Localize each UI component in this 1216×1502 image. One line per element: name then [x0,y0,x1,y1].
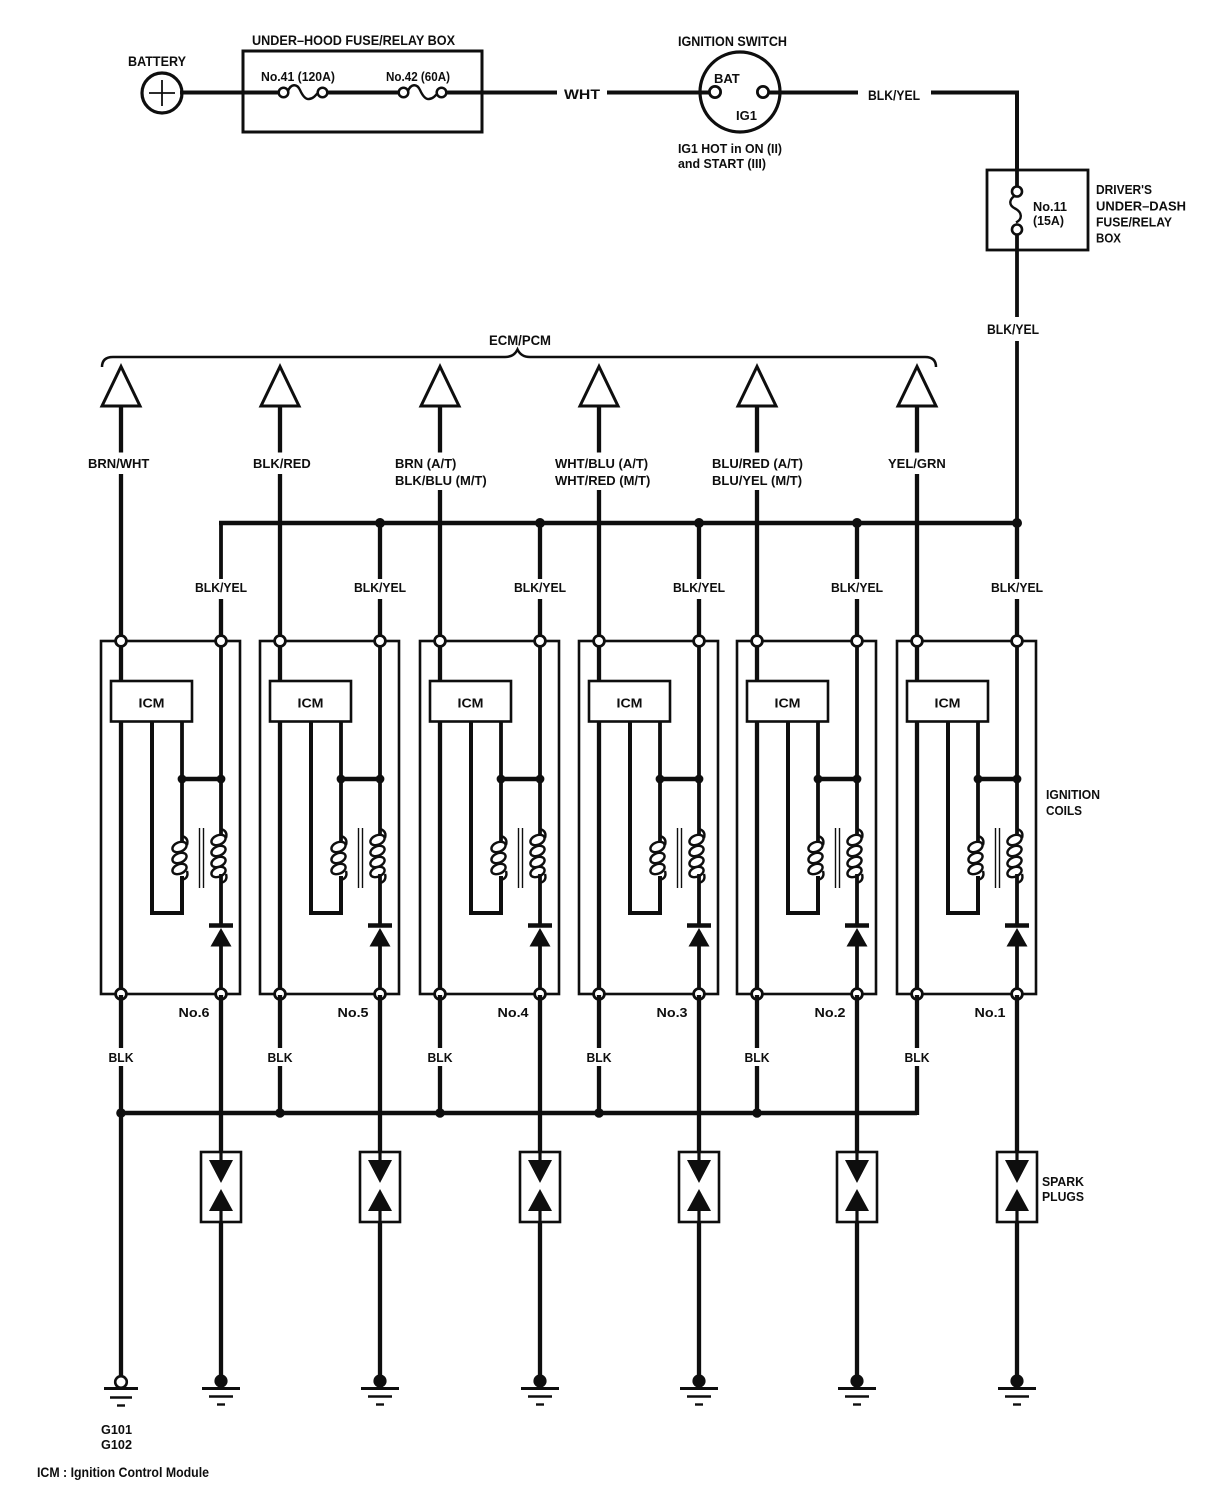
under-hood fuse/relay box [243,33,482,132]
primary winding coil No.4 [490,836,507,880]
terminal coil No.4 bottom right [535,989,546,1000]
ECM/PCM connector terminal 3 [421,367,459,407]
label ignition coils [1046,787,1100,818]
label G101 G102 [101,1423,132,1452]
diode coil No.1 [1005,926,1029,947]
wire bus down to coil No.4 [538,523,542,579]
ignition coil No.1 [897,636,1036,1020]
wire ICM pin 3 to primary winding top [816,721,820,843]
svg-text:BLK/YEL: BLK/YEL [514,580,566,595]
terminal coil No.2 top left [752,636,763,647]
svg-text:BLK/YEL: BLK/YEL [673,580,725,595]
note IG1 HOT in ON and START [678,142,782,171]
fuse No.41 [279,85,328,99]
svg-text:BLK: BLK [268,1051,293,1065]
svg-text:and START (III): and START (III) [678,157,766,171]
transformer core coil No.2 [836,828,840,888]
ECM/PCM connector terminal 6 [898,367,936,407]
wire to ignition coil No.2 terminal [755,490,759,643]
wire secondary winding to diode [855,874,859,924]
svg-text:BLK: BLK [428,1051,453,1065]
svg-text:ICM: ICM [617,697,643,711]
secondary winding coil No.4 [529,829,546,883]
wire BLK from coil No.2 [755,995,759,1048]
svg-text:IGNITION SWITCH: IGNITION SWITCH [678,34,787,49]
wire ICM pin 2 to primary winding bottom [471,721,501,913]
wire coil No.3 output to spark plug [697,995,701,1153]
svg-text:DRIVER'S: DRIVER'S [1096,183,1152,197]
wire diode to spark output terminal [1015,945,1019,995]
spark plug No.1 [997,1152,1037,1222]
svg-text:No.1: No.1 [975,1005,1006,1020]
coil No.5 outer box [260,641,399,994]
svg-text:BLK/RED: BLK/RED [253,456,311,471]
ECM/PCM connector terminal 4 [580,367,618,407]
junction at primary [656,775,665,784]
wire ICM pin 3 to primary winding top [499,721,503,843]
terminal coil No.1 top right [1012,636,1023,647]
wire BLK to ground bus [438,1066,442,1115]
svg-text:WHT: WHT [564,87,601,102]
wire from ECM/PCM terminal 6 [915,406,919,453]
wire bus left corner down to coil No.6 [219,523,223,579]
net label BLK/RED [253,456,311,471]
ICM U6 [111,681,192,722]
wire terminal to ICM U2 [755,641,759,682]
wire terminal to ICM U5 [278,641,282,682]
spark plug No.6 [201,1152,241,1222]
spark plug No.3 [679,1152,719,1222]
net label WHT/BLU (A/T) / WHT/RED (M/T) [555,456,650,488]
wire spark plug No.1 to ground [1015,1222,1019,1378]
wire BLK to ground bus [278,1066,282,1115]
wire junction bar primary-secondary [978,777,1017,781]
label spark plugs [1042,1175,1084,1204]
ignition coil No.4 [420,636,559,1020]
ground for spark plug No.6 [202,1374,240,1404]
wire coil No.4 output to spark plug [538,995,542,1153]
junction at secondary [1013,775,1022,784]
wire ICM pin 3 to primary winding top [976,721,980,843]
secondary winding coil No.6 [210,829,227,883]
wire to ignition coil No.4 terminal [438,490,442,643]
fuse No.11 (15A) [1010,170,1022,250]
spark plug No.4 [520,1152,560,1222]
wire BLK/YEL into coil No.6 [219,599,223,643]
terminal coil No.3 top left [594,636,605,647]
svg-text:No.2: No.2 [815,1005,846,1020]
svg-text:WHT/BLU (A/T): WHT/BLU (A/T) [555,456,648,471]
terminal coil No.6 bottom right [216,989,227,1000]
net label BRN/WHT [88,456,149,471]
wire secondary winding to diode [378,874,382,924]
svg-text:WHT/RED (M/T): WHT/RED (M/T) [555,473,650,488]
wire secondary winding to diode [219,874,223,924]
primary winding coil No.3 [649,836,666,880]
wire into fuse No.41 [243,91,279,95]
wire bus down to coil No.3 [697,523,701,579]
junction at primary [178,775,187,784]
wire to ignition coil No.1 terminal [915,474,919,643]
wire diode to spark output terminal [219,945,223,995]
wire ICM pin 3 to primary winding top [180,721,184,843]
wire secondary terminal through junction to winding [855,641,859,836]
terminal coil No.6 bottom left [116,989,127,1000]
wire coil No.5 output to spark plug [378,995,382,1153]
terminal coil No.2 bottom right [852,989,863,1000]
ignition coil No.2 [737,636,876,1020]
wire spark plug No.4 to ground [538,1222,542,1378]
wire BLK/YEL into coil No.4 [538,599,542,643]
svg-text:IG1 HOT in ON (II): IG1 HOT in ON (II) [678,142,782,156]
wire bus down to coil No.5 [378,523,382,579]
ground for spark plug No.4 [521,1374,559,1404]
wire BLK to ground bus [915,1066,919,1115]
wire bus down to coil No.1 [1015,523,1019,579]
svg-text:BLK: BLK [905,1051,930,1065]
transformer core coil No.1 [996,828,1000,888]
transformer core coil No.5 [359,828,363,888]
svg-text:ICM: ICM [935,697,961,711]
wire ICM pin 1 to coil No.4 ground terminal [438,721,442,995]
wire secondary terminal through junction to winding [219,641,223,836]
wire diode to spark output terminal [697,945,701,995]
wire junction bar primary-secondary [341,777,380,781]
svg-text:BOX: BOX [1096,232,1122,246]
coil No.6 outer box [101,641,240,994]
wire diode to spark output terminal [538,945,542,995]
ICM U1 [907,681,988,722]
wire ICM pin 1 to coil No.3 ground terminal [597,721,601,995]
junction ground bus at No.4 [435,1108,445,1118]
wire spark plug No.2 to ground [855,1222,859,1378]
junction at primary [814,775,823,784]
wire junction bar primary-secondary [182,777,221,781]
transformer core coil No.3 [678,828,682,888]
terminal coil No.2 top right [852,636,863,647]
wire to ignition coil No.5 terminal [278,474,282,643]
junction at secondary [217,775,226,784]
svg-text:ICM: ICM [298,697,324,711]
wire ICM pin 3 to primary winding top [658,721,662,843]
wire BLK from coil No.3 [597,995,601,1048]
wire ICM pin 2 to primary winding bottom [311,721,341,913]
svg-text:BLK/YEL: BLK/YEL [195,580,247,595]
wire terminal to ICM U6 [119,641,123,682]
secondary winding coil No.2 [846,829,863,883]
primary winding coil No.6 [171,836,188,880]
wire secondary winding to diode [1015,874,1019,924]
svg-text:BLU/YEL (M/T): BLU/YEL (M/T) [712,473,802,488]
svg-text:SPARK: SPARK [1042,1175,1084,1189]
wire from ECM/PCM terminal 3 [438,406,442,453]
wire between fuses [327,91,399,95]
junction bus to coil No.2 [852,518,862,528]
wire BLK from coil No.4 [438,995,442,1048]
svg-text:BRN/WHT: BRN/WHT [88,456,149,471]
terminal coil No.4 top left [435,636,446,647]
svg-text:BLK/YEL: BLK/YEL [831,580,883,595]
wire diode to spark output terminal [855,945,859,995]
terminal coil No.2 bottom left [752,989,763,1000]
wire secondary terminal through junction to winding [538,641,542,836]
svg-text:BLK: BLK [587,1051,612,1065]
transformer core coil No.6 [200,828,204,888]
ignition coil No.6 [101,636,240,1020]
wire spark plug No.6 to ground [219,1222,223,1378]
wire BLK/YEL down to bus [1015,341,1019,523]
svg-text:BLK/YEL: BLK/YEL [991,580,1043,595]
wire bus down to coil No.2 [855,523,859,579]
wire secondary terminal through junction to winding [378,641,382,836]
svg-text:G101: G101 [101,1423,132,1437]
ECM/PCM connector terminal 5 [738,367,776,407]
terminal coil No.5 bottom right [375,989,386,1000]
svg-text:(15A): (15A) [1033,214,1064,228]
svg-text:ICM : Ignition Control Module: ICM : Ignition Control Module [37,1465,209,1480]
svg-text:ICM: ICM [458,697,484,711]
wire ground bus [121,1111,917,1116]
junction ground bus at No.3 [594,1108,604,1118]
coil No.2 outer box [737,641,876,994]
svg-text:No.11: No.11 [1033,200,1067,214]
terminal coil No.5 top left [275,636,286,647]
svg-text:BLK: BLK [109,1051,134,1065]
diode coil No.5 [368,926,392,947]
wire battery to under-hood fuse box [180,91,244,95]
terminal coil No.5 top right [375,636,386,647]
spark plug No.5 [360,1152,400,1222]
wire to ignition coil No.3 terminal [597,490,601,643]
svg-text:COILS: COILS [1046,803,1082,818]
ICM U5 [270,681,351,722]
wire secondary terminal through junction to winding [697,641,701,836]
terminal coil No.4 bottom left [435,989,446,1000]
wire ICM pin 2 to primary winding bottom [788,721,818,913]
wire coil No.6 output to spark plug [219,995,223,1153]
wire BLK/YEL distribution bus [219,521,1017,526]
junction at primary [497,775,506,784]
terminal coil No.1 bottom left [912,989,923,1000]
ground for spark plug No.5 [361,1374,399,1404]
svg-text:YEL/GRN: YEL/GRN [888,456,946,471]
coil No.4 outer box [420,641,559,994]
coil No.1 outer box [897,641,1036,994]
junction bus to coil No.4 [535,518,545,528]
ignition switch [678,34,787,132]
ignition coil No.3 [579,636,718,1020]
primary winding coil No.1 [967,836,984,880]
ground for spark plug No.2 [838,1374,876,1404]
svg-text:PLUGS: PLUGS [1042,1190,1084,1204]
wire ICM pin 2 to primary winding bottom [152,721,182,913]
spark plug No.2 [837,1152,877,1222]
net label BLU/RED (A/T) / BLU/YEL (M/T) [712,456,803,488]
net label BRN (A/T) / BLK/BLU (M/T) [395,456,487,488]
wire spark plug No.5 to ground [378,1222,382,1378]
wire under-dash box down, BLK/YEL net [1015,250,1019,317]
ICM U3 [589,681,670,722]
svg-text:G102: G102 [101,1438,132,1452]
svg-text:ICM: ICM [139,697,165,711]
wire BLK/YEL into coil No.1 (from fuse) [1015,599,1019,643]
wire ignition switch to BLK/YEL label [769,91,858,95]
wire junction bar primary-secondary [660,777,699,781]
svg-text:UNDER–DASH: UNDER–DASH [1096,200,1186,214]
junction at secondary [695,775,704,784]
terminal coil No.6 top left [116,636,127,647]
junction at primary [974,775,983,784]
fuse No.42 [399,85,447,99]
wire from ECM/PCM terminal 2 [278,406,282,453]
svg-text:No.41 (120A): No.41 (120A) [261,70,335,84]
secondary winding coil No.5 [369,829,386,883]
wire BLK from coil No.5 [278,995,282,1048]
wire BLK/YEL to under-dash fuse box [931,93,1017,171]
junction at secondary [536,775,545,784]
ECM/PCM brace [102,350,936,368]
junction ground bus at No.5 [275,1108,285,1118]
ground for spark plug No.1 [998,1374,1036,1404]
wire ICM pin 1 to coil No.6 ground terminal [119,721,123,995]
transformer core coil No.4 [519,828,523,888]
wire from ECM/PCM terminal 4 [597,406,601,453]
svg-text:BATTERY: BATTERY [128,54,186,69]
wire ICM pin 1 to coil No.2 ground terminal [755,721,759,995]
svg-text:ECM/PCM: ECM/PCM [489,333,551,348]
wire secondary terminal through junction to winding [1015,641,1019,836]
terminal coil No.6 top right [216,636,227,647]
diode coil No.3 [687,926,711,947]
svg-text:No.5: No.5 [338,1005,369,1020]
wire BLK/YEL into coil No.2 [855,599,859,643]
net label YEL/GRN [888,456,946,471]
wire secondary winding to diode [697,874,701,924]
junction bus to coil No.3 [694,518,704,528]
svg-text:UNDER–HOOD FUSE/RELAY BOX: UNDER–HOOD FUSE/RELAY BOX [252,33,455,48]
diode coil No.2 [845,926,869,947]
battery [128,54,186,113]
fuse No.11 value label [1033,200,1067,228]
svg-text:IG1: IG1 [736,108,757,123]
svg-text:BLU/RED (A/T): BLU/RED (A/T) [712,456,803,471]
ICM U2 [747,681,828,722]
primary winding coil No.5 [330,836,347,880]
junction bus to coil No.1 [1012,518,1022,528]
terminal coil No.1 bottom right [1012,989,1023,1000]
diode coil No.6 [209,926,233,947]
wire WHT to ignition switch [607,91,711,95]
wire BLK/YEL into coil No.3 [697,599,701,643]
junction at secondary [853,775,862,784]
wire G101 ground drop [119,1113,123,1376]
wire ICM pin 1 to coil No.5 ground terminal [278,721,282,995]
wire junction bar primary-secondary [818,777,857,781]
svg-text:BAT: BAT [714,71,740,86]
svg-text:BLK/YEL: BLK/YEL [987,322,1039,337]
wire BLK from coil No.1 [915,995,919,1048]
ignition coil No.5 [260,636,399,1020]
terminal coil No.3 bottom left [594,989,605,1000]
ICM U4 [430,681,511,722]
svg-text:ICM: ICM [775,697,801,711]
wire ICM pin 2 to primary winding bottom [630,721,660,913]
primary winding coil No.2 [807,836,824,880]
junction at primary [337,775,346,784]
junction bus to coil No.5 [375,518,385,528]
wire ICM pin 1 to coil No.1 ground terminal [915,721,919,995]
svg-text:BRN (A/T): BRN (A/T) [395,456,456,471]
terminal coil No.3 top right [694,636,705,647]
ground for spark plug No.3 [680,1374,718,1404]
junction ground bus at No.6 [116,1108,126,1118]
ground G101/G102 [104,1376,138,1405]
svg-text:No.42 (60A): No.42 (60A) [386,70,450,84]
ECM/PCM connector terminal 2 [261,367,299,407]
wire ICM pin 2 to primary winding bottom [948,721,978,913]
wire BLK from coil No.6 [119,995,123,1048]
wire terminal to ICM U3 [597,641,601,682]
secondary winding coil No.1 [1006,829,1023,883]
driver's under-dash fuse/relay box [987,170,1088,250]
diode coil No.4 [528,926,552,947]
terminal coil No.4 top right [535,636,546,647]
wire BLK/YEL into coil No.5 [378,599,382,643]
svg-text:No.6: No.6 [179,1005,210,1020]
svg-text:No.3: No.3 [657,1005,688,1020]
wire coil No.1 output to spark plug [1015,995,1019,1153]
coil No.3 outer box [579,641,718,994]
wire to ignition coil No.6 terminal [119,474,123,643]
ECM/PCM connector terminal 1 [102,367,140,407]
wire fuse box to WHT label [446,91,557,95]
svg-text:BLK: BLK [745,1051,770,1065]
label driver's under-dash fuse/relay box [1096,183,1186,246]
wire BLK to ground bus [597,1066,601,1115]
secondary winding coil No.3 [688,829,705,883]
wire coil No.2 output to spark plug [855,995,859,1153]
wire terminal to ICM U1 [915,641,919,682]
wire from ECM/PCM terminal 5 [755,406,759,453]
wire spark plug No.3 to ground [697,1222,701,1378]
wire diode to spark output terminal [378,945,382,995]
terminal coil No.3 bottom right [694,989,705,1000]
wire from ECM/PCM terminal 1 [119,406,123,453]
svg-text:IGNITION: IGNITION [1046,787,1100,802]
wire ICM pin 3 to primary winding top [339,721,343,843]
svg-text:No.4: No.4 [498,1005,530,1020]
svg-text:BLK/BLU (M/T): BLK/BLU (M/T) [395,473,487,488]
wire terminal to ICM U4 [438,641,442,682]
wire secondary winding to diode [538,874,542,924]
junction at secondary [376,775,385,784]
wire BLK to ground bus [119,1066,123,1115]
wire junction bar primary-secondary [501,777,540,781]
svg-text:BLK/YEL: BLK/YEL [354,580,406,595]
terminal coil No.1 top left [912,636,923,647]
junction ground bus at No.2 [752,1108,762,1118]
terminal coil No.5 bottom left [275,989,286,1000]
svg-text:BLK/YEL: BLK/YEL [868,88,920,103]
wire BLK to ground bus [755,1066,759,1115]
svg-text:FUSE/RELAY: FUSE/RELAY [1096,216,1173,230]
